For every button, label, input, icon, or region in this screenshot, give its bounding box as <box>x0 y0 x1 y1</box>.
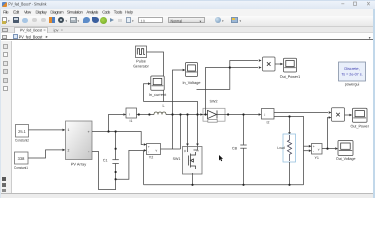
svg-text:+: + <box>148 145 150 149</box>
voltage measurement Y1 <box>312 144 323 161</box>
svg-text:▾: ▾ <box>66 19 68 23</box>
svg-text:In_current: In_current <box>149 92 167 97</box>
wire C1 top tap to Y2 plus input <box>144 143 147 146</box>
bus wire diode to I2 <box>225 113 261 116</box>
capacitor CB <box>232 115 247 185</box>
scope In_Voltage <box>183 63 201 86</box>
constant Constant1 <box>14 152 28 170</box>
inductor L <box>154 104 166 115</box>
svg-text:Tools: Tools <box>114 10 123 15</box>
svg-text:Simulation: Simulation <box>67 10 84 15</box>
power tap wires to product Out_Power1 <box>197 59 262 114</box>
constant Constant2 <box>15 125 29 143</box>
left window edge <box>0 9 1 199</box>
product block Out_Power multiply <box>332 108 345 122</box>
wire Y2 output up to In_Voltage scope <box>161 69 186 149</box>
bus wire inductor to diode <box>166 114 208 116</box>
svg-text:Constant1: Constant1 <box>14 166 28 170</box>
arrow into Y2 lower input <box>144 149 147 152</box>
tab bar <box>0 27 375 33</box>
breadcrumb <box>0 33 375 40</box>
svg-text:×: × <box>43 28 46 33</box>
wire current tap to In_current scope <box>144 82 164 101</box>
scope Out_Power1 <box>280 58 301 79</box>
svg-text:PV_fed_Boost: PV_fed_Boost <box>20 28 43 33</box>
menu bar <box>0 9 375 17</box>
svg-text:10: 10 <box>141 18 146 23</box>
scope Out_Power <box>350 108 369 128</box>
svg-text:Diagram: Diagram <box>50 10 64 15</box>
pulse generator <box>133 46 149 69</box>
svg-text:2: 2 <box>68 148 70 152</box>
svg-text:▾: ▾ <box>240 19 242 23</box>
svg-text:PV Array: PV Array <box>71 162 86 167</box>
svg-text:Code: Code <box>102 10 111 15</box>
wire product to Out_Power1 scope <box>275 63 283 66</box>
product block Out_Power1 multiply <box>263 57 276 71</box>
svg-text:powergui: powergui <box>345 82 360 87</box>
svg-text:Out_Power1: Out_Power1 <box>280 74 301 79</box>
wire bus to SW1 drain <box>186 115 189 147</box>
diode SW2 <box>200 100 225 123</box>
svg-text:Load: Load <box>277 146 285 150</box>
wire SW1 source to bottom rail <box>192 174 194 185</box>
load block <box>277 134 295 162</box>
wire Constant1 to PV Array input 2 <box>28 149 65 158</box>
current measurement I1 <box>123 108 136 123</box>
wire Y1 output to product and Out_Voltage <box>322 116 338 150</box>
svg-text:▸: ▸ <box>46 34 49 39</box>
svg-text:ipv: ipv <box>54 28 59 33</box>
svg-text:Constant2: Constant2 <box>15 139 29 143</box>
capacitor C1 <box>103 132 119 180</box>
bus wire I2 to load branch and Y1 drop <box>274 117 304 185</box>
bottom rail <box>144 184 304 186</box>
svg-text:C1: C1 <box>103 159 108 163</box>
svg-text:+: + <box>313 145 315 149</box>
svg-text:L: L <box>162 104 164 108</box>
svg-text:v: v <box>156 149 158 153</box>
wire pulse generator to SW1 gate <box>147 52 199 146</box>
signal wire I2 to product top input <box>274 111 332 114</box>
title bar <box>0 0 375 9</box>
svg-text:▾: ▾ <box>200 19 202 23</box>
svg-text:1: 1 <box>68 128 70 132</box>
svg-text:Help: Help <box>125 10 134 15</box>
svg-text:PV_fed_Boost: PV_fed_Boost <box>19 34 43 39</box>
svg-text:Ts = 2e-07 s.: Ts = 2e-07 s. <box>341 73 362 77</box>
svg-text:I1: I1 <box>130 119 133 123</box>
svg-text:▾: ▾ <box>132 19 134 23</box>
svg-text:SW2: SW2 <box>210 100 218 104</box>
wire rail up to Y2 <box>143 150 145 184</box>
scope Out_Voltage <box>336 141 356 162</box>
svg-text:SW1: SW1 <box>173 157 181 161</box>
svg-text:25.1: 25.1 <box>18 129 27 134</box>
left palette <box>0 41 12 198</box>
wire product to Out_Power scope <box>345 114 353 117</box>
toolbar <box>0 16 375 27</box>
svg-text:File: File <box>3 10 9 15</box>
svg-text:Out_Voltage: Out_Voltage <box>336 156 356 161</box>
bus wire left segment <box>109 115 127 132</box>
svg-text:View: View <box>24 10 32 15</box>
mouse cursor <box>219 155 223 161</box>
wire load bottom to rail <box>289 162 291 185</box>
svg-text:×: × <box>61 28 64 33</box>
svg-text:Analysis: Analysis <box>86 10 98 15</box>
svg-text:▾: ▾ <box>369 36 371 40</box>
bottom strip <box>0 193 375 199</box>
svg-text:338: 338 <box>18 156 25 161</box>
svg-text:Edit: Edit <box>13 10 20 15</box>
svg-text:▾: ▾ <box>78 19 80 23</box>
voltage measurement Y2 <box>147 144 161 160</box>
mosfet SW1 <box>173 147 202 175</box>
svg-text:Out_Power: Out_Power <box>350 124 369 129</box>
right window edge <box>373 9 375 199</box>
powergui block <box>339 62 366 87</box>
svg-text:Normal: Normal <box>171 19 183 24</box>
svg-text:▾: ▾ <box>222 19 224 23</box>
subsystem PV Array <box>66 121 93 167</box>
svg-text:Display: Display <box>36 10 48 15</box>
wire Constant2 to PV Array input 1 <box>29 129 66 132</box>
svg-text:CB: CB <box>232 147 238 151</box>
svg-text:Generator: Generator <box>133 64 149 69</box>
wire PV Array plus output to bus <box>92 132 144 145</box>
svg-text:▾: ▾ <box>8 19 10 23</box>
current measurement I2 <box>262 109 275 125</box>
svg-text:In_Voltage: In_Voltage <box>183 80 201 85</box>
wires Y1 inputs from vertical feed <box>304 145 312 152</box>
svg-text:v: v <box>318 147 320 151</box>
bus wire I1 to inductor <box>137 114 155 116</box>
window chrome text <box>3 2 371 40</box>
svg-text:PV_fed_Boost* - Simulink: PV_fed_Boost* - Simulink <box>8 2 47 7</box>
svg-text:I2: I2 <box>267 120 270 124</box>
svg-text:Discrete,: Discrete, <box>344 66 359 71</box>
svg-text:Y2: Y2 <box>149 155 154 159</box>
svg-text:Y1: Y1 <box>314 156 319 160</box>
wire PV Array minus down to lower rail <box>92 150 144 189</box>
scope In_current <box>149 76 167 97</box>
wire drop to Load <box>288 117 291 136</box>
